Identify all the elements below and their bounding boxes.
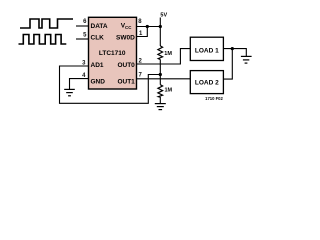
svg-text:SW0D: SW0D: [116, 34, 135, 41]
wire pin 3 AD1 to bottom: [60, 66, 161, 103]
svg-text:OUT1: OUT1: [117, 78, 135, 85]
ground below R2: [155, 104, 166, 110]
ground right: [241, 56, 252, 63]
svg-text:CLK: CLK: [91, 34, 105, 41]
wire pin 2 OUT0 to LOAD 1: [137, 49, 191, 64]
svg-text:LTC1710: LTC1710: [99, 50, 126, 57]
wire pin 4 GND: [70, 79, 89, 90]
load LOAD 1 box: [190, 37, 223, 60]
svg-text:DATA: DATA: [91, 23, 108, 30]
waveform DATA input: [20, 19, 73, 28]
svg-text:1710 F02: 1710 F02: [205, 96, 223, 101]
wire LOAD 1 right to ground: [223, 49, 246, 56]
wire pin 7 OUT1 to LOAD 2: [137, 78, 191, 80]
svg-text:AD1: AD1: [91, 62, 104, 69]
svg-text:5V: 5V: [160, 12, 167, 18]
wire rail to AD1 node: [159, 60, 161, 85]
wire LOAD 2 right riser: [223, 49, 232, 80]
node AD1 divider junction: [159, 73, 162, 76]
svg-text:GND: GND: [91, 78, 106, 85]
op chip U1 LTC1710: [89, 17, 137, 89]
load LOAD 2 box: [190, 71, 223, 94]
wire pin 1 SW0D riser: [137, 27, 148, 37]
waveform CLK input: [19, 35, 67, 45]
wire pin 6 DATA: [76, 25, 89, 27]
wire resistor to ground: [159, 97, 161, 104]
svg-text:LOAD 2: LOAD 2: [195, 79, 219, 86]
svg-text:LOAD 1: LOAD 1: [195, 47, 219, 54]
ground left: [64, 89, 75, 95]
resistor R2 1M: [158, 85, 163, 98]
resistor R1 1M: [158, 46, 163, 60]
svg-text:1M: 1M: [165, 88, 173, 94]
wire pin 8 VCC to 5V rail: [137, 26, 161, 28]
svg-text:OUT0: OUT0: [117, 62, 135, 69]
node junction pin1/pin8: [146, 25, 149, 28]
wire 5V rail: [159, 18, 161, 47]
wire pin 5 CLK: [76, 38, 89, 40]
node loads common: [231, 47, 234, 50]
svg-text:1M: 1M: [164, 51, 172, 57]
node junction VCC rail: [159, 25, 162, 28]
